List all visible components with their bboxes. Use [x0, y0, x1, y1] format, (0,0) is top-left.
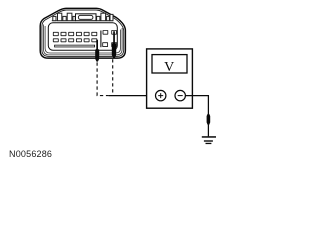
ground bar 1 — [202, 136, 216, 138]
castellation base line — [52, 20, 113, 22]
pin row1 col2 — [61, 32, 66, 35]
negative terminal minus sign — [178, 95, 183, 97]
probe 1 (in pin row2 col6) — [95, 40, 99, 62]
top castellation tooth 6 — [97, 16, 100, 20]
probe 2 (in right group top-right pin) — [112, 31, 116, 57]
lower slot — [55, 45, 95, 47]
pin row2 col5 — [84, 39, 89, 42]
right group pin top-right (probed) — [112, 31, 117, 35]
connector rim line 2 (sides and bottom) — [44, 25, 123, 55]
pin row2 col4 — [76, 39, 81, 42]
pin row1 col6 — [92, 32, 97, 35]
top castellation tooth 5 — [73, 16, 75, 20]
top castellation tooth 3 — [63, 16, 66, 20]
figure number label — [9, 149, 52, 159]
pin row1 col5 — [84, 32, 89, 35]
pin row1 col3 — [69, 32, 74, 35]
ground bar 3 — [206, 143, 212, 144]
top center block inner window — [78, 15, 93, 19]
top castellation tooth 4 — [67, 13, 72, 21]
connector rim line 3 (sides and bottom) — [45, 26, 120, 53]
voltmeter positive terminal — [156, 90, 166, 100]
top castellation tooth 7 — [101, 13, 106, 21]
top castellation tooth 8 — [107, 16, 110, 20]
top castellation tooth 1 — [53, 16, 56, 20]
connector pin face — [48, 23, 117, 51]
top center block — [76, 14, 97, 21]
voltmeter U1 body — [147, 49, 193, 108]
pin row1 col4 — [76, 32, 81, 35]
pin row2 col3 — [69, 39, 74, 42]
top castellation tooth 2 — [58, 13, 62, 21]
voltmeter negative terminal — [175, 90, 185, 100]
pin row1 col1 — [53, 32, 58, 35]
dashed lead from probe 2 — [112, 59, 114, 95]
pin row2 col2 — [61, 39, 66, 42]
pin row2 col1 — [53, 39, 58, 42]
banana plug on ground wire — [207, 114, 211, 125]
positive terminal plus sign — [158, 93, 163, 98]
dashed lead from probe 1 to meter positive — [97, 62, 109, 95]
face divider rib — [100, 31, 102, 48]
connector rim line 1 — [42, 10, 124, 56]
wire from negative terminal to ground — [185, 96, 208, 137]
right group pin bottom-left — [103, 43, 108, 47]
pin row2 col6 (probed) — [92, 39, 97, 42]
svg-text:V: V — [164, 60, 174, 75]
wire to voltmeter positive terminal — [109, 95, 156, 97]
right group pin top-left — [103, 31, 108, 35]
connector outer shell — [40, 8, 125, 58]
voltmeter display window — [152, 55, 187, 73]
right group pin bottom-right — [112, 43, 117, 47]
top castellation tooth 9 — [110, 14, 113, 20]
ground bar 2 — [204, 140, 213, 141]
